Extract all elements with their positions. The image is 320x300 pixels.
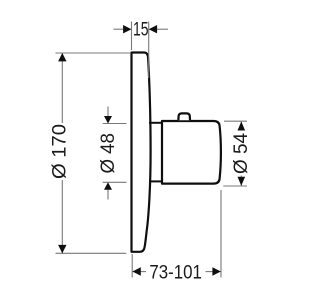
dim D48: bottom extension line [103, 181, 127, 183]
dim D48: top arrow tail [107, 107, 109, 118]
dim 73-101: left arrowhead [132, 267, 140, 275]
dim D54: label backing [231, 131, 250, 176]
dim 73-101: right arrowhead [212, 267, 220, 275]
dim 15: left arrowhead [123, 25, 131, 33]
dim D170: bottom extension line [56, 252, 127, 254]
dim 15: left arrow tail [114, 28, 124, 30]
adapter sleeve top edge [149, 122, 162, 124]
safety override button on handle [178, 113, 190, 120]
dim D170: dimension line upper segment [61, 53, 63, 123]
svg-text:15: 15 [133, 20, 149, 41]
dim 15: left extension line [131, 22, 133, 51]
escutcheon plate side view [132, 53, 151, 252]
dim D54: dimension line [240, 121, 242, 186]
dim D54: top extension line [224, 120, 247, 122]
dim 73-101: dimension line left segment [132, 271, 146, 273]
dim 15: right extension line [148, 22, 150, 79]
dim D54: bottom extension line [223, 185, 247, 187]
dim 73-101: left extension line [131, 254, 133, 278]
dim D48: top extension line [103, 123, 127, 125]
dim 73-101: right extension line [220, 190, 222, 278]
dim 73-101: dimension line right segment [206, 271, 222, 273]
dim D170: dimension line lower segment [61, 180, 63, 253]
svg-text:73-101: 73-101 [149, 262, 202, 283]
dim 15: right arrow tail [157, 28, 168, 30]
svg-text:Ø 170: Ø 170 [50, 124, 71, 179]
dim D48: top arrowhead [104, 116, 112, 124]
thermostat handle body [162, 121, 221, 184]
adapter sleeve bottom edge [149, 180, 162, 182]
dim D170: top extension line [56, 52, 131, 54]
svg-text:Ø 54: Ø 54 [231, 133, 252, 174]
dim 15: right arrowhead [149, 25, 157, 33]
dim D54: bottom arrowhead [238, 177, 246, 186]
dim D48: bottom arrowhead [104, 182, 112, 190]
dim D48: bottom arrow tail [107, 189, 109, 200]
dim D170: bottom arrowhead [58, 245, 66, 253]
svg-text:Ø 48: Ø 48 [98, 133, 119, 174]
dim D170: top arrowhead [58, 53, 66, 61]
dim D54: top arrowhead [238, 122, 246, 131]
